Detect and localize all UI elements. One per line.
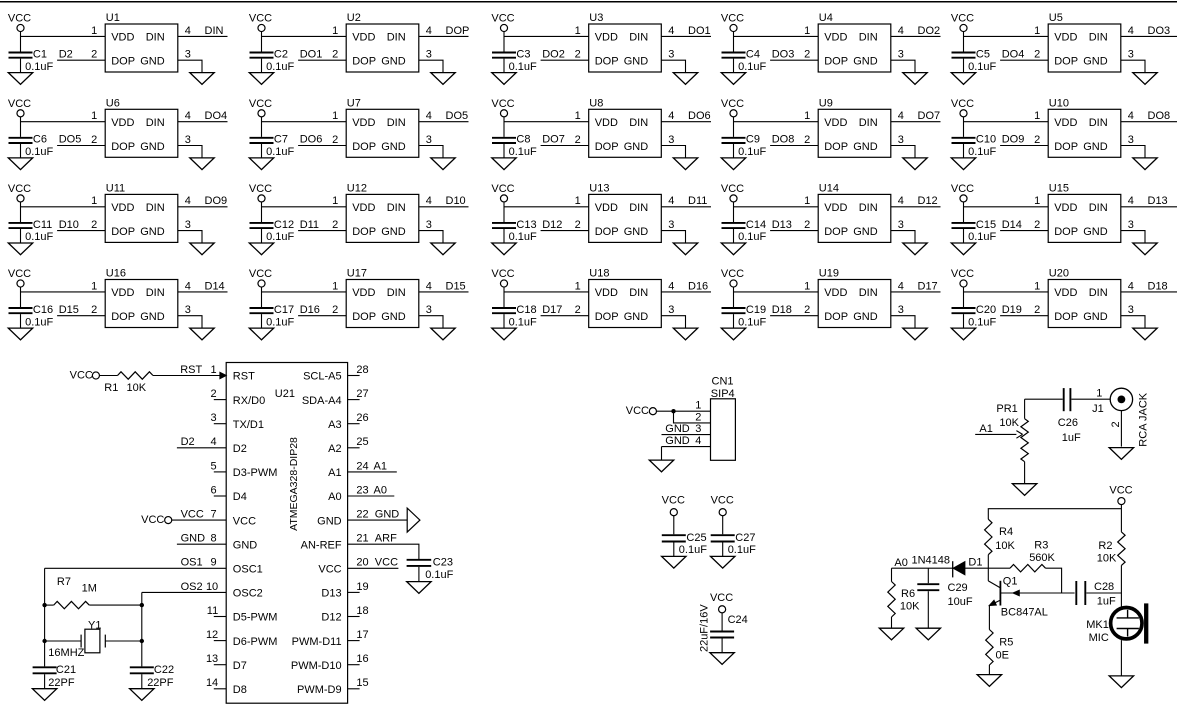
svg-text:1: 1 <box>804 110 810 122</box>
svg-text:C27: C27 <box>735 532 755 544</box>
svg-text:VCC: VCC <box>70 370 93 382</box>
svg-text:D3-PWM: D3-PWM <box>233 467 278 479</box>
svg-text:U14: U14 <box>819 183 839 195</box>
svg-text:2: 2 <box>575 219 581 231</box>
svg-text:1N4148: 1N4148 <box>912 554 951 566</box>
svg-text:GND: GND <box>665 435 690 447</box>
svg-text:U9: U9 <box>819 98 833 110</box>
svg-text:D18: D18 <box>772 304 792 316</box>
svg-text:D17: D17 <box>542 304 562 316</box>
svg-text:D12: D12 <box>321 612 341 624</box>
svg-text:VDD: VDD <box>824 287 847 299</box>
svg-text:D4: D4 <box>233 491 247 503</box>
svg-text:DO9: DO9 <box>205 195 228 207</box>
svg-text:21: 21 <box>356 533 368 545</box>
svg-text:3: 3 <box>426 134 432 146</box>
svg-text:10K: 10K <box>999 417 1019 429</box>
svg-text:GND: GND <box>624 56 649 68</box>
svg-text:OSC2: OSC2 <box>233 588 263 600</box>
svg-text:D11: D11 <box>688 195 707 207</box>
svg-text:1: 1 <box>1096 388 1102 400</box>
svg-text:ARF: ARF <box>375 533 397 545</box>
svg-text:GND: GND <box>140 56 165 68</box>
svg-text:VDD: VDD <box>111 32 134 44</box>
svg-text:D2: D2 <box>233 443 247 455</box>
svg-text:2: 2 <box>91 49 97 61</box>
svg-text:GND: GND <box>624 311 649 323</box>
svg-text:0.1uF: 0.1uF <box>509 146 537 158</box>
svg-text:GND: GND <box>381 141 406 153</box>
svg-text:4: 4 <box>185 25 191 37</box>
svg-text:DOP: DOP <box>446 25 470 37</box>
svg-text:D10: D10 <box>59 219 79 231</box>
svg-text:DIN: DIN <box>859 117 878 129</box>
svg-text:4: 4 <box>185 195 191 207</box>
svg-text:2: 2 <box>575 49 581 61</box>
svg-text:DOP: DOP <box>824 226 848 238</box>
svg-text:4: 4 <box>695 435 701 447</box>
svg-text:3: 3 <box>695 423 701 435</box>
svg-text:A0: A0 <box>328 491 341 503</box>
svg-text:D15: D15 <box>446 280 466 292</box>
svg-text:4: 4 <box>426 110 432 122</box>
svg-text:DO4: DO4 <box>205 110 228 122</box>
svg-text:3: 3 <box>668 49 674 61</box>
svg-text:R2: R2 <box>1098 540 1112 552</box>
svg-text:4: 4 <box>1128 110 1134 122</box>
svg-text:C29: C29 <box>948 582 968 594</box>
svg-text:1: 1 <box>1034 25 1040 37</box>
svg-text:C3: C3 <box>516 48 530 60</box>
svg-text:1: 1 <box>332 195 338 207</box>
svg-text:4: 4 <box>185 110 191 122</box>
svg-text:2: 2 <box>1034 49 1040 61</box>
svg-text:D5-PWM: D5-PWM <box>233 612 278 624</box>
svg-text:VDD: VDD <box>824 202 847 214</box>
svg-text:4: 4 <box>668 280 674 292</box>
svg-text:DO8: DO8 <box>772 134 795 146</box>
svg-text:15: 15 <box>356 677 368 689</box>
svg-text:0.1uF: 0.1uF <box>968 146 996 158</box>
svg-text:1: 1 <box>210 364 216 376</box>
svg-text:0.1uF: 0.1uF <box>425 569 453 581</box>
svg-text:U18: U18 <box>589 268 609 280</box>
svg-text:D15: D15 <box>59 304 79 316</box>
svg-text:D19: D19 <box>1002 304 1022 316</box>
svg-text:DOP: DOP <box>111 311 135 323</box>
svg-text:3: 3 <box>898 304 904 316</box>
svg-text:C18: C18 <box>516 304 536 316</box>
svg-text:2: 2 <box>91 219 97 231</box>
svg-text:GND: GND <box>665 423 690 435</box>
svg-text:PR1: PR1 <box>996 403 1017 415</box>
svg-text:2: 2 <box>1034 304 1040 316</box>
svg-text:GND: GND <box>853 56 878 68</box>
svg-text:VCC: VCC <box>721 98 744 110</box>
svg-text:DIN: DIN <box>146 287 165 299</box>
svg-text:4: 4 <box>1128 280 1134 292</box>
svg-text:GND: GND <box>140 141 165 153</box>
svg-text:12: 12 <box>206 629 218 641</box>
svg-text:2: 2 <box>575 134 581 146</box>
svg-text:U15: U15 <box>1049 183 1069 195</box>
svg-text:1uF: 1uF <box>1097 596 1116 608</box>
svg-text:0.1uF: 0.1uF <box>738 61 766 73</box>
svg-text:DO9: DO9 <box>1002 134 1025 146</box>
svg-text:2: 2 <box>332 304 338 316</box>
svg-text:16: 16 <box>356 653 368 665</box>
svg-text:10uF: 10uF <box>948 596 973 608</box>
svg-text:VDD: VDD <box>595 287 618 299</box>
svg-text:VDD: VDD <box>595 32 618 44</box>
svg-text:DIN: DIN <box>387 287 406 299</box>
svg-text:13: 13 <box>206 653 218 665</box>
svg-text:DO2: DO2 <box>918 25 941 37</box>
svg-text:U2: U2 <box>347 12 361 24</box>
svg-text:DIN: DIN <box>629 202 648 214</box>
svg-text:1: 1 <box>1034 280 1040 292</box>
svg-text:RST: RST <box>180 364 202 376</box>
svg-text:0.1uF: 0.1uF <box>25 231 53 243</box>
svg-text:0.1uF: 0.1uF <box>968 61 996 73</box>
svg-text:3: 3 <box>1128 219 1134 231</box>
svg-text:3: 3 <box>426 49 432 61</box>
svg-text:C9: C9 <box>746 134 760 146</box>
svg-text:VDD: VDD <box>352 287 375 299</box>
svg-text:GND: GND <box>1083 56 1108 68</box>
svg-text:DO6: DO6 <box>300 134 323 146</box>
svg-text:C10: C10 <box>976 134 996 146</box>
svg-text:1: 1 <box>575 195 581 207</box>
svg-text:DOP: DOP <box>595 141 619 153</box>
svg-text:2: 2 <box>332 49 338 61</box>
svg-text:PWM-D10: PWM-D10 <box>291 660 342 672</box>
svg-text:VDD: VDD <box>1054 202 1077 214</box>
svg-text:VCC: VCC <box>951 183 974 195</box>
svg-text:3: 3 <box>668 219 674 231</box>
svg-text:VCC: VCC <box>951 98 974 110</box>
svg-text:0.1uF: 0.1uF <box>25 316 53 328</box>
svg-text:VDD: VDD <box>1054 32 1077 44</box>
svg-text:DIN: DIN <box>629 287 648 299</box>
svg-text:2: 2 <box>804 49 810 61</box>
svg-text:4: 4 <box>668 195 674 207</box>
svg-text:24: 24 <box>356 460 368 472</box>
svg-text:CN1: CN1 <box>712 376 734 388</box>
svg-text:A2: A2 <box>328 443 341 455</box>
svg-text:560K: 560K <box>1029 552 1055 564</box>
svg-text:0.1uF: 0.1uF <box>968 316 996 328</box>
svg-text:DO7: DO7 <box>542 134 565 146</box>
svg-text:D17: D17 <box>918 280 938 292</box>
svg-text:DIN: DIN <box>205 25 224 37</box>
svg-text:D10: D10 <box>446 195 466 207</box>
svg-text:DO5: DO5 <box>59 134 82 146</box>
svg-text:VCC: VCC <box>8 183 31 195</box>
svg-text:6: 6 <box>210 484 216 496</box>
svg-text:D12: D12 <box>918 195 938 207</box>
svg-text:23: 23 <box>356 484 368 496</box>
svg-text:3: 3 <box>898 219 904 231</box>
svg-text:D2: D2 <box>181 436 195 448</box>
svg-text:C4: C4 <box>746 48 760 60</box>
svg-text:0.1uF: 0.1uF <box>25 61 53 73</box>
svg-text:DIN: DIN <box>859 287 878 299</box>
svg-text:4: 4 <box>668 110 674 122</box>
svg-text:OS1: OS1 <box>181 557 203 569</box>
svg-text:2: 2 <box>91 304 97 316</box>
svg-text:0.1uF: 0.1uF <box>266 146 294 158</box>
svg-text:R4: R4 <box>999 526 1013 538</box>
svg-text:3: 3 <box>185 219 191 231</box>
svg-text:DOP: DOP <box>1054 56 1078 68</box>
svg-text:22PF: 22PF <box>147 677 174 689</box>
svg-text:3: 3 <box>210 412 216 424</box>
svg-text:J1: J1 <box>1092 403 1104 415</box>
svg-text:VCC: VCC <box>249 98 272 110</box>
svg-text:DOP: DOP <box>595 311 619 323</box>
svg-text:27: 27 <box>356 388 368 400</box>
svg-text:VCC: VCC <box>491 98 514 110</box>
svg-text:VDD: VDD <box>1054 287 1077 299</box>
svg-text:3: 3 <box>898 134 904 146</box>
svg-text:DIN: DIN <box>146 117 165 129</box>
svg-text:C12: C12 <box>274 219 294 231</box>
svg-text:D6-PWM: D6-PWM <box>233 636 278 648</box>
svg-text:1: 1 <box>91 25 97 37</box>
svg-text:GND: GND <box>1083 141 1108 153</box>
svg-text:U4: U4 <box>819 12 833 24</box>
svg-text:3: 3 <box>668 304 674 316</box>
svg-text:DIN: DIN <box>1089 32 1108 44</box>
svg-text:C13: C13 <box>516 219 536 231</box>
svg-text:VCC: VCC <box>491 13 514 25</box>
svg-text:18: 18 <box>356 605 368 617</box>
svg-text:GND: GND <box>853 311 878 323</box>
svg-text:DOP: DOP <box>111 56 135 68</box>
svg-text:0.1uF: 0.1uF <box>25 146 53 158</box>
svg-text:1: 1 <box>332 25 338 37</box>
svg-text:16MHZ: 16MHZ <box>48 647 84 659</box>
svg-text:0.1uF: 0.1uF <box>968 231 996 243</box>
svg-text:1: 1 <box>91 280 97 292</box>
svg-text:C25: C25 <box>686 532 706 544</box>
svg-text:10K: 10K <box>995 540 1015 552</box>
svg-text:1uF: 1uF <box>1062 432 1081 444</box>
svg-text:VCC: VCC <box>249 268 272 280</box>
svg-text:2: 2 <box>91 134 97 146</box>
svg-text:VCC: VCC <box>721 13 744 25</box>
svg-text:2: 2 <box>1034 134 1040 146</box>
svg-text:2: 2 <box>332 219 338 231</box>
svg-text:U12: U12 <box>347 183 367 195</box>
svg-text:BC847AL: BC847AL <box>1001 607 1048 619</box>
svg-text:C1: C1 <box>33 48 47 60</box>
svg-text:1: 1 <box>575 280 581 292</box>
svg-text:SDA-A4: SDA-A4 <box>302 395 342 407</box>
svg-text:C7: C7 <box>274 134 288 146</box>
svg-text:Q1: Q1 <box>1003 576 1018 588</box>
svg-text:0.1uF: 0.1uF <box>728 544 756 556</box>
svg-text:DIN: DIN <box>387 117 406 129</box>
svg-text:0.1uF: 0.1uF <box>509 316 537 328</box>
svg-text:VCC: VCC <box>318 564 341 576</box>
svg-text:14: 14 <box>206 677 218 689</box>
svg-text:VCC: VCC <box>491 268 514 280</box>
svg-text:3: 3 <box>185 304 191 316</box>
svg-text:D18: D18 <box>1148 280 1168 292</box>
svg-text:C6: C6 <box>33 134 47 146</box>
svg-text:GND: GND <box>375 509 400 521</box>
svg-text:VCC: VCC <box>8 98 31 110</box>
svg-text:U6: U6 <box>106 98 120 110</box>
svg-text:C23: C23 <box>433 556 453 568</box>
svg-text:DOP: DOP <box>595 226 619 238</box>
svg-text:1: 1 <box>804 25 810 37</box>
svg-text:VDD: VDD <box>352 117 375 129</box>
svg-text:DIN: DIN <box>629 32 648 44</box>
svg-text:DIN: DIN <box>146 202 165 214</box>
svg-text:1: 1 <box>575 25 581 37</box>
svg-text:25: 25 <box>356 436 368 448</box>
svg-text:1: 1 <box>1034 110 1040 122</box>
svg-text:C21: C21 <box>56 664 76 676</box>
svg-text:DO3: DO3 <box>772 48 795 60</box>
svg-text:26: 26 <box>356 412 368 424</box>
svg-text:VDD: VDD <box>824 117 847 129</box>
svg-text:DIN: DIN <box>387 202 406 214</box>
svg-text:VDD: VDD <box>352 202 375 214</box>
svg-text:DOP: DOP <box>1054 226 1078 238</box>
svg-text:VCC: VCC <box>181 509 204 521</box>
svg-text:3: 3 <box>1128 134 1134 146</box>
svg-text:GND: GND <box>1083 311 1108 323</box>
svg-text:VDD: VDD <box>111 287 134 299</box>
svg-text:9: 9 <box>210 557 216 569</box>
svg-text:D14: D14 <box>1002 219 1022 231</box>
svg-text:DOP: DOP <box>352 311 376 323</box>
svg-text:RST: RST <box>233 371 255 383</box>
svg-text:GND: GND <box>233 539 257 551</box>
svg-text:DOP: DOP <box>352 56 376 68</box>
svg-text:VDD: VDD <box>111 202 134 214</box>
svg-text:0.1uF: 0.1uF <box>679 544 707 556</box>
svg-text:2: 2 <box>1034 219 1040 231</box>
svg-text:U5: U5 <box>1049 12 1063 24</box>
svg-text:4: 4 <box>426 25 432 37</box>
svg-text:DIN: DIN <box>859 202 878 214</box>
svg-text:DO6: DO6 <box>688 110 711 122</box>
svg-text:DIN: DIN <box>146 32 165 44</box>
svg-text:GND: GND <box>140 311 165 323</box>
svg-text:A1: A1 <box>979 423 992 435</box>
svg-text:DO1: DO1 <box>300 48 323 60</box>
svg-text:0.1uF: 0.1uF <box>266 316 294 328</box>
svg-text:DO2: DO2 <box>542 48 565 60</box>
svg-text:VDD: VDD <box>595 202 618 214</box>
svg-text:R6: R6 <box>901 588 915 600</box>
svg-text:19: 19 <box>356 581 368 593</box>
svg-text:VCC: VCC <box>1109 484 1132 496</box>
svg-text:D12: D12 <box>542 219 562 231</box>
svg-text:C16: C16 <box>33 304 53 316</box>
svg-text:DOP: DOP <box>824 311 848 323</box>
svg-text:1: 1 <box>575 110 581 122</box>
svg-text:DO8: DO8 <box>1148 110 1171 122</box>
svg-text:VDD: VDD <box>352 32 375 44</box>
svg-text:10K: 10K <box>900 600 920 612</box>
svg-text:C26: C26 <box>1058 417 1078 429</box>
svg-text:1M: 1M <box>82 582 97 594</box>
svg-text:GND: GND <box>181 533 206 545</box>
svg-text:DO4: DO4 <box>1002 48 1025 60</box>
svg-text:VCC: VCC <box>721 183 744 195</box>
svg-text:2: 2 <box>575 304 581 316</box>
svg-text:DOP: DOP <box>111 141 135 153</box>
svg-text:VCC: VCC <box>626 405 649 417</box>
svg-text:GND: GND <box>317 515 342 527</box>
svg-text:DOP: DOP <box>595 56 619 68</box>
svg-text:4: 4 <box>898 25 904 37</box>
svg-text:4: 4 <box>898 110 904 122</box>
svg-text:0E: 0E <box>996 649 1009 661</box>
svg-text:VCC: VCC <box>375 557 398 569</box>
svg-text:Y1: Y1 <box>88 620 101 632</box>
svg-text:3: 3 <box>1128 304 1134 316</box>
svg-text:D2: D2 <box>59 48 73 60</box>
svg-text:DIN: DIN <box>1089 202 1108 214</box>
svg-text:D14: D14 <box>205 280 225 292</box>
svg-text:4: 4 <box>668 25 674 37</box>
svg-text:22PF: 22PF <box>48 677 75 689</box>
svg-text:DIN: DIN <box>629 117 648 129</box>
svg-text:1: 1 <box>804 195 810 207</box>
svg-text:4: 4 <box>210 436 216 448</box>
svg-text:C5: C5 <box>976 48 990 60</box>
svg-text:C14: C14 <box>746 219 766 231</box>
svg-text:4: 4 <box>426 280 432 292</box>
svg-text:10K: 10K <box>127 382 147 394</box>
svg-text:D8: D8 <box>233 684 247 696</box>
svg-text:7: 7 <box>210 509 216 521</box>
svg-text:A0: A0 <box>374 484 387 496</box>
svg-text:22: 22 <box>356 509 368 521</box>
svg-text:5: 5 <box>210 460 216 472</box>
svg-text:AN-REF: AN-REF <box>301 539 342 551</box>
svg-text:D16: D16 <box>300 304 320 316</box>
svg-text:20: 20 <box>356 557 368 569</box>
svg-text:OS2: OS2 <box>181 581 203 593</box>
svg-text:U7: U7 <box>347 98 361 110</box>
svg-text:VDD: VDD <box>595 117 618 129</box>
svg-text:VCC: VCC <box>141 514 164 526</box>
svg-text:DOP: DOP <box>824 141 848 153</box>
svg-text:3: 3 <box>185 134 191 146</box>
svg-text:2: 2 <box>332 134 338 146</box>
svg-text:U19: U19 <box>819 268 839 280</box>
svg-text:DOP: DOP <box>824 56 848 68</box>
svg-text:GND: GND <box>140 226 165 238</box>
svg-text:2: 2 <box>804 134 810 146</box>
svg-text:MIC: MIC <box>1089 632 1109 644</box>
svg-text:U13: U13 <box>589 183 609 195</box>
svg-text:VCC: VCC <box>951 268 974 280</box>
svg-text:RX/D0: RX/D0 <box>233 395 265 407</box>
svg-text:11: 11 <box>207 605 218 617</box>
svg-text:8: 8 <box>210 533 216 545</box>
svg-text:PWM-D9: PWM-D9 <box>297 684 342 696</box>
svg-text:U21: U21 <box>275 388 295 400</box>
